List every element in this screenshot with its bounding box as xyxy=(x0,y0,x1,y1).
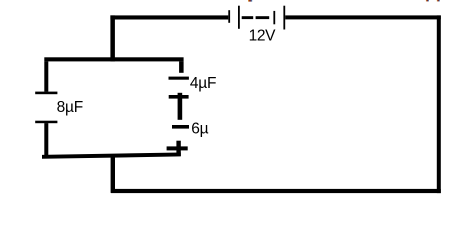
wire: top wire left segment xyxy=(110,15,228,19)
capacitor C3 bottom plate (6u) xyxy=(167,146,188,150)
svg-text:12V: 12V xyxy=(249,27,277,44)
capacitor C1 bottom plate (8uF) xyxy=(35,121,57,124)
wire: inner bottom wire (node B) xyxy=(42,153,181,159)
artifact speck 1 xyxy=(248,0,252,2)
wire: inner top wire (node A) xyxy=(44,57,183,61)
wire: 8uF upper lead xyxy=(44,61,48,91)
capacitor C1 top plate (8uF) xyxy=(35,92,57,95)
artifact speck 3 xyxy=(437,0,440,1)
wire: top wire right segment xyxy=(285,15,441,19)
svg-text:8µF: 8µF xyxy=(57,99,83,116)
svg-text:6µ: 6µ xyxy=(191,121,208,138)
wire: C3 lower lead xyxy=(176,141,180,156)
battery V1 dash 2 xyxy=(256,16,270,19)
capacitor C2 top plate (4uF) xyxy=(169,77,189,80)
wire: 8uF lower lead xyxy=(44,123,48,156)
wire: lower-left vertical xyxy=(111,154,115,193)
artifact speck 2 xyxy=(426,0,429,1)
wire: lead between C2 and C3 xyxy=(178,93,183,120)
capacitor C3 top plate (6u) xyxy=(172,125,189,129)
wire: upper-left vertical xyxy=(110,15,115,61)
wire: right vertical xyxy=(437,15,441,193)
wire: middle branch top lead xyxy=(179,61,184,72)
battery V1 long plate (right positive) xyxy=(283,6,285,30)
capacitor C2 bottom plate (4uF) xyxy=(169,95,189,99)
battery V1 short plate (right negative) xyxy=(273,11,275,24)
svg-text:4µF: 4µF xyxy=(190,75,216,92)
battery V1 long plate (left positive) xyxy=(238,6,240,29)
wire: bottom wire xyxy=(111,189,441,193)
battery V1 dash 1 xyxy=(242,16,254,19)
battery V1 short plate (left negative) xyxy=(228,10,230,23)
